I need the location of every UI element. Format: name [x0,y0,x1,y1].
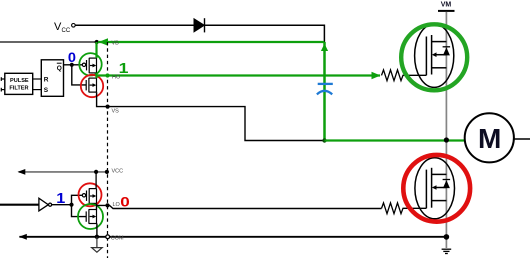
ground signal arrow left [92,237,103,252]
wire gate high [405,74,427,76]
wire Vcc rail [75,24,194,26]
annotation circle red on P low driver [79,183,102,206]
node VB junction [95,40,99,44]
wire gate low [405,207,427,209]
node VCC a [94,170,98,174]
tick input 2 [0,88,2,92]
wire phase green to motor [325,139,465,141]
diode D1 bootstrap [194,18,205,32]
resistor R1 gate high [382,70,405,81]
svg-text:0: 0 [120,195,130,210]
tick input 1 [0,77,2,81]
transistor P low-side driver [82,188,96,203]
annotation circle red on N driver [81,75,103,97]
node latch output [70,63,74,67]
wire black rail to VB junction [0,41,97,43]
annotation circle green on P driver [79,53,101,75]
svg-text:R: R [44,76,49,83]
svg-text:0: 0 [68,50,76,66]
svg-text:Q: Q [57,65,62,72]
svg-text:S: S [44,87,49,94]
svg-text:FILTER: FILTER [9,85,28,91]
wire to lower gate [72,65,86,85]
resistor R2 gate low [382,203,405,214]
svg-text:PULSE: PULSE [10,78,29,84]
wire P drain to HO green [95,73,97,78]
arrow current into gate resistor [372,72,381,80]
wire VCC lower gray [19,171,107,173]
wire N low driver to COM [96,224,98,237]
svg-text:COM: COM [111,235,124,241]
annotation circle red on Q2 [403,155,470,222]
label Vcc [54,21,71,34]
pulse filter block [5,73,33,94]
wire to upper gate P low driver [72,195,83,204]
wire VB green [98,41,324,43]
wire COM rail [19,236,446,238]
capacitor C1 bootstrap [317,84,333,95]
wire to lower gate N low driver [72,205,87,217]
mosfet Q2 low-side [415,158,455,219]
wire pulse filter input 2 [1,89,5,91]
svg-text:M: M [478,123,501,154]
wire HO green [97,74,381,76]
arrow current into VB junction [99,38,109,46]
wire input IN [0,204,39,206]
node LO pin [105,203,109,207]
node COM right ground [444,234,450,240]
svg-text:CC: CC [62,28,71,34]
wire bootstrap cap vertical green [323,42,326,141]
wire VM drain source column gray [445,12,447,248]
wire diode to corner [205,25,325,42]
svg-text:VM: VM [441,2,452,9]
svg-text:VB: VB [112,41,120,47]
wire VB to P source green [95,42,97,58]
latch RS [41,60,63,97]
node VCC pin [105,170,109,174]
wire totem output LO [97,203,382,209]
transistor N low-side driver [86,209,96,224]
transistor P high-side driver [82,58,96,73]
svg-text:1: 1 [119,60,129,76]
inverter U2 [39,198,52,211]
node COM pin [106,235,110,239]
terminal Vcc [72,24,76,28]
mosfet Q1 high-side [415,24,454,87]
arrow VCC left [18,169,26,175]
wire motor right [514,138,530,140]
wire latch output [64,64,83,66]
node HO pin green [105,73,109,77]
svg-text:VS: VS [112,108,120,114]
wire filter to latch R [33,78,42,80]
wire inverter to gates [52,204,72,206]
annotation circle green on N low driver [78,204,103,229]
arrow COM left [19,234,27,240]
wire filter to latch S [33,89,42,91]
wire pulse filter input 1 [1,78,5,80]
node VS pin [106,105,110,109]
wire N drain to VS [97,92,325,140]
node phase at motor [444,137,449,142]
annotation circle green on Q1 [401,24,467,90]
ground earth right [442,249,452,253]
node COM left [95,235,99,239]
power rail VM bar [438,10,455,12]
dashed IC boundary [107,42,109,258]
wire VCC to P low driver [95,172,97,189]
arrow current up cap [321,44,328,51]
svg-text:VCC: VCC [112,169,124,175]
motor M [465,113,514,162]
node gate split lower [69,203,73,207]
node phase at cap [322,138,326,142]
transistor N high-side driver [86,78,96,93]
